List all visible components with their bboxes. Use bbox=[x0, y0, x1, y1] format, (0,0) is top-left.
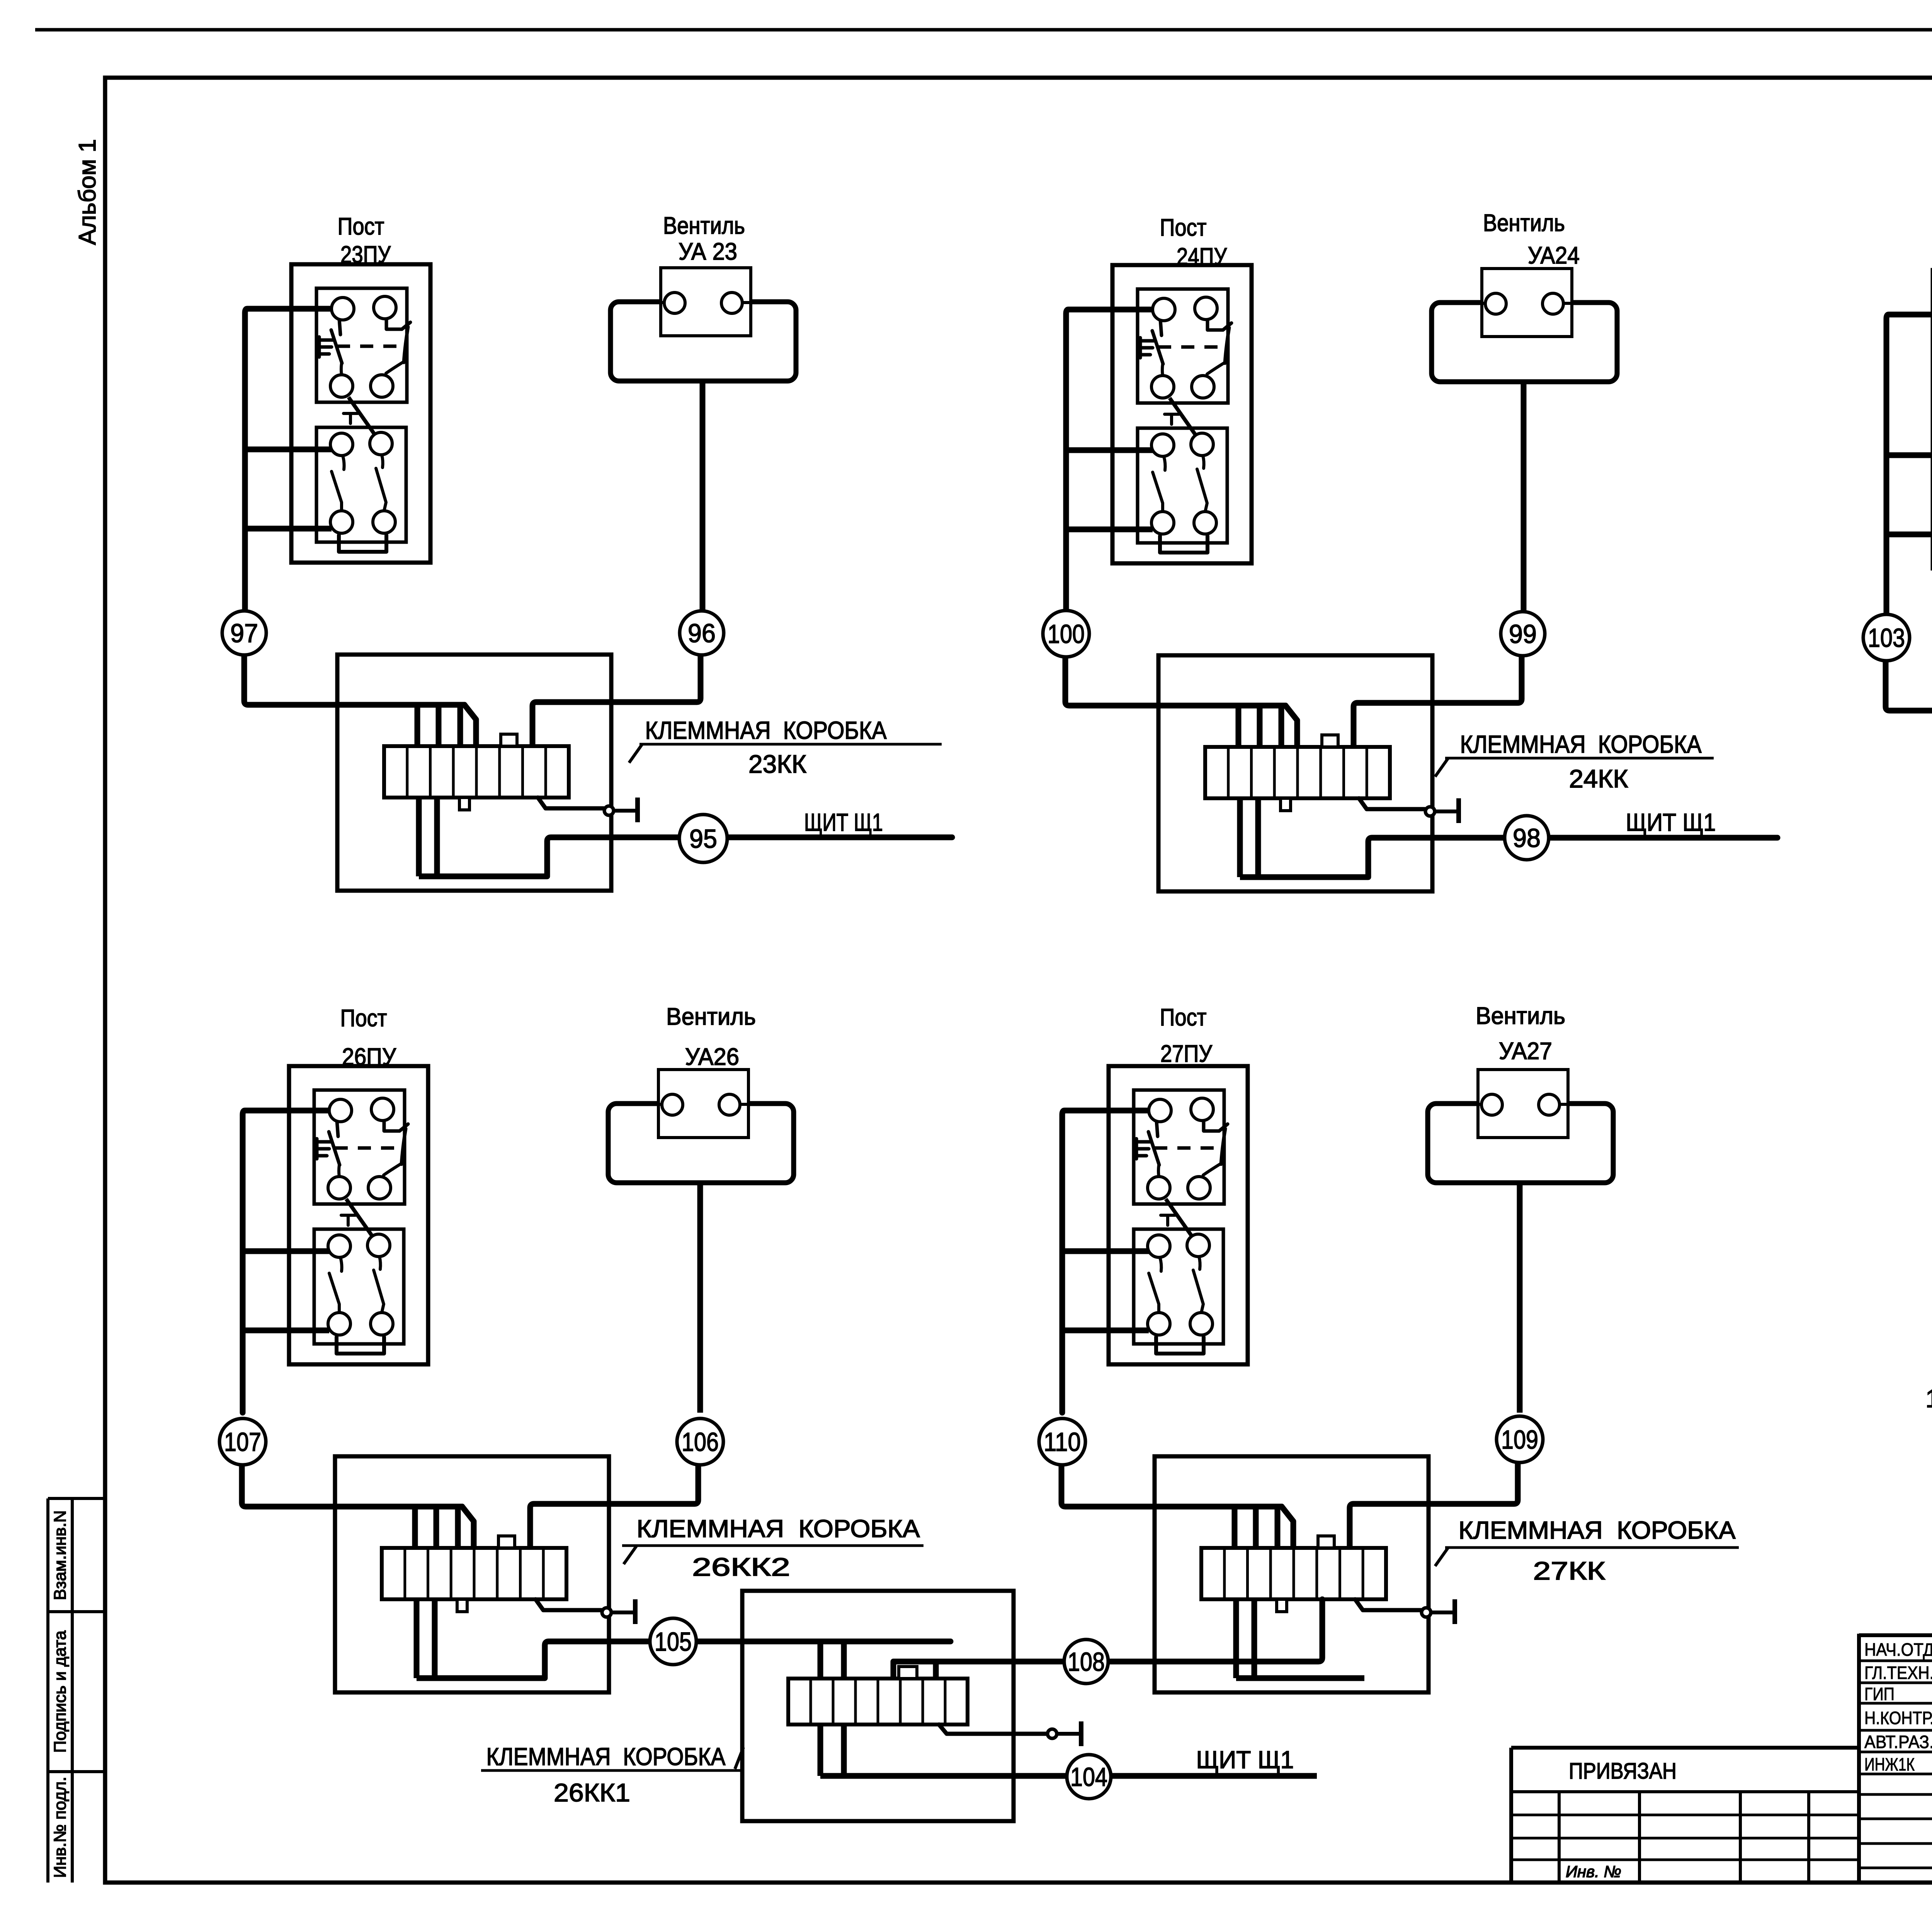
svg-text:ГИП: ГИП bbox=[1864, 1684, 1895, 1704]
svg-text:КЛЕММНАЯ КОРОБКА: КЛЕММНАЯ КОРОБКА bbox=[1459, 1516, 1736, 1544]
svg-text:Пост: Пост bbox=[1160, 1004, 1207, 1031]
svg-text:Вентиль: Вентиль bbox=[1476, 1003, 1565, 1029]
svg-text:НАЧ.ОТД: НАЧ.ОТД bbox=[1864, 1639, 1932, 1660]
svg-text:КЛЕММНАЯ КОРОБКА: КЛЕММНАЯ КОРОБКА bbox=[486, 1743, 726, 1770]
svg-text:26ПУ: 26ПУ bbox=[342, 1044, 396, 1070]
svg-text:ГЛ.ТЕХН.: ГЛ.ТЕХН. bbox=[1864, 1663, 1932, 1683]
svg-text:24КК: 24КК bbox=[1569, 764, 1629, 793]
svg-text:24ПУ: 24ПУ bbox=[1177, 243, 1227, 270]
svg-text:ЩИТ Щ1: ЩИТ Щ1 bbox=[1626, 808, 1716, 836]
svg-text:96: 96 bbox=[688, 619, 716, 648]
svg-text:Вентиль: Вентиль bbox=[666, 1003, 756, 1030]
svg-text:103: 103 bbox=[1868, 623, 1905, 653]
svg-text:27КК: 27КК bbox=[1533, 1556, 1606, 1585]
svg-text:Инв. №: Инв. № bbox=[1566, 1862, 1621, 1881]
svg-text:97: 97 bbox=[230, 619, 258, 648]
svg-text:1.: 1. bbox=[1925, 1384, 1932, 1413]
svg-text:26КК2: 26КК2 bbox=[692, 1553, 790, 1581]
svg-text:ИНЖ1К: ИНЖ1К bbox=[1864, 1754, 1915, 1774]
svg-text:95: 95 bbox=[689, 824, 717, 854]
svg-text:КЛЕММНАЯ КОРОБКА: КЛЕММНАЯ КОРОБКА bbox=[637, 1515, 920, 1543]
svg-text:100: 100 bbox=[1048, 619, 1085, 649]
svg-text:АВТ.РАЗ.: АВТ.РАЗ. bbox=[1864, 1732, 1932, 1752]
svg-text:КЛЕММНАЯ КОРОБКА: КЛЕММНАЯ КОРОБКА bbox=[645, 716, 887, 744]
svg-text:ЩИТ Щ1: ЩИТ Щ1 bbox=[1196, 1746, 1294, 1774]
svg-text:Инв.№ подл.: Инв.№ подл. bbox=[51, 1777, 70, 1878]
svg-text:23КК: 23КК bbox=[748, 750, 807, 778]
svg-text:Пост: Пост bbox=[1160, 214, 1207, 241]
svg-text:Вентиль: Вентиль bbox=[663, 213, 745, 239]
svg-text:98: 98 bbox=[1513, 823, 1541, 853]
svg-text:107: 107 bbox=[224, 1427, 261, 1457]
svg-text:108: 108 bbox=[1068, 1647, 1105, 1677]
svg-text:Вентиль: Вентиль bbox=[1483, 210, 1565, 236]
svg-text:23ПУ: 23ПУ bbox=[340, 241, 391, 268]
svg-text:ПРИВЯЗАН: ПРИВЯЗАН bbox=[1569, 1759, 1677, 1784]
svg-text:110: 110 bbox=[1044, 1427, 1081, 1457]
svg-text:109: 109 bbox=[1501, 1425, 1538, 1454]
svg-text:Альбом 1: Альбом 1 bbox=[74, 139, 101, 245]
svg-text:УА27: УА27 bbox=[1499, 1038, 1552, 1065]
svg-text:ЩИТ Щ1: ЩИТ Щ1 bbox=[804, 808, 883, 836]
svg-text:Взам.инв.N: Взам.инв.N bbox=[51, 1510, 70, 1600]
svg-text:104: 104 bbox=[1070, 1762, 1107, 1792]
svg-text:Пост: Пост bbox=[338, 213, 384, 240]
svg-text:26КК1: 26КК1 bbox=[554, 1778, 630, 1807]
svg-text:УА 23: УА 23 bbox=[679, 238, 737, 265]
svg-text:Подпись и дата: Подпись и дата bbox=[51, 1630, 70, 1753]
svg-text:КЛЕММНАЯ КОРОБКА: КЛЕММНАЯ КОРОБКА bbox=[1460, 730, 1702, 758]
svg-text:105: 105 bbox=[655, 1627, 692, 1656]
svg-text:99: 99 bbox=[1509, 619, 1537, 649]
svg-text:УА26: УА26 bbox=[685, 1044, 739, 1070]
svg-text:УА24: УА24 bbox=[1528, 242, 1580, 269]
svg-text:27ПУ: 27ПУ bbox=[1160, 1041, 1213, 1067]
svg-text:106: 106 bbox=[682, 1427, 719, 1457]
svg-text:Н.КОНТР.: Н.КОНТР. bbox=[1864, 1708, 1932, 1728]
svg-text:Пост: Пост bbox=[340, 1005, 387, 1032]
